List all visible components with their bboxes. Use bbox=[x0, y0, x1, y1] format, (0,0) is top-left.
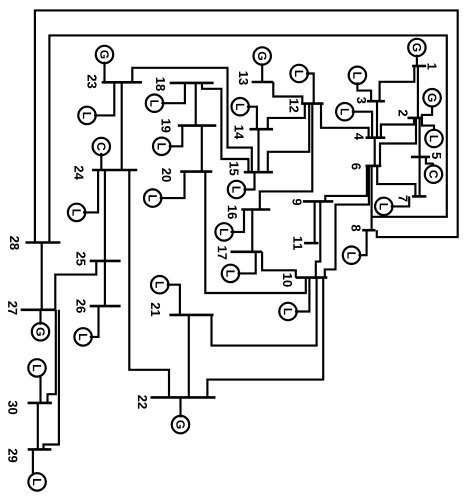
load L15 bbox=[228, 172, 255, 198]
generator G22 bbox=[172, 397, 189, 433]
bus 6 bbox=[366, 165, 382, 168]
bus 18 bbox=[170, 82, 214, 85]
line 10-17 bbox=[262, 252, 296, 278]
bus 29 bbox=[28, 448, 52, 451]
line 18-19 bbox=[195, 83, 197, 126]
line 1-3 bbox=[380, 66, 415, 101]
bus 15 bbox=[244, 171, 273, 174]
generator G23 bbox=[96, 46, 113, 83]
bus 5 bbox=[411, 156, 430, 159]
label bus 10 bbox=[283, 274, 292, 287]
line 6-7 bbox=[377, 166, 415, 197]
load L16 bbox=[215, 210, 244, 241]
load L14 bbox=[232, 98, 257, 129]
line 23-15 bbox=[132, 68, 252, 172]
line 24-25 bbox=[104, 170, 106, 261]
label bus 19 bbox=[161, 119, 170, 132]
condenser C24 bbox=[93, 138, 110, 170]
bus 9 bbox=[303, 200, 333, 203]
line 12-16 bbox=[260, 104, 313, 210]
label bus 5 bbox=[432, 152, 441, 158]
line 21-22 bbox=[188, 315, 190, 398]
line 1-2 bbox=[417, 66, 419, 118]
bus 22 bbox=[151, 396, 216, 399]
label bus 15 bbox=[229, 162, 238, 175]
load L12 bbox=[290, 65, 313, 104]
label bus 30 bbox=[8, 401, 17, 415]
line 6-10 bbox=[325, 166, 369, 278]
load L3 bbox=[349, 67, 371, 102]
line 23-24 bbox=[121, 82, 123, 170]
line 14-15 bbox=[257, 129, 259, 172]
load L23 bbox=[78, 82, 114, 124]
label bus 27 bbox=[8, 301, 17, 314]
label bus 12 bbox=[290, 99, 299, 112]
line 9-11 bbox=[314, 201, 316, 243]
generator G1 bbox=[408, 39, 425, 66]
label bus 9 bbox=[292, 199, 301, 205]
bus 14 bbox=[250, 128, 274, 131]
bus 17 bbox=[231, 251, 263, 254]
generator G2 bbox=[422, 89, 441, 118]
load L2 bbox=[422, 118, 443, 147]
load L8 bbox=[343, 230, 367, 264]
label bus 23 bbox=[87, 75, 96, 89]
line 12-13 bbox=[273, 82, 302, 104]
label bus 1 bbox=[428, 64, 437, 70]
line 25-27 bbox=[55, 261, 96, 310]
line 10-20 bbox=[205, 172, 305, 293]
bus 13 bbox=[252, 81, 274, 84]
line 22-24 bbox=[129, 170, 169, 397]
load L19 bbox=[153, 126, 182, 155]
line 27-30 bbox=[48, 310, 56, 403]
label bus 29 bbox=[8, 449, 17, 463]
bus 2 bbox=[408, 117, 424, 120]
bus 4 bbox=[366, 136, 386, 139]
label bus 8 bbox=[351, 225, 360, 231]
bus 21 bbox=[169, 314, 213, 317]
bus 23 bbox=[102, 81, 142, 84]
line 25-26 bbox=[104, 261, 106, 306]
line 10-21 bbox=[212, 278, 317, 346]
bus 7 bbox=[412, 195, 426, 198]
line 9-10 bbox=[316, 201, 321, 277]
label bus 14 bbox=[235, 126, 244, 140]
line 12-4 bbox=[321, 104, 369, 138]
line 2-6 bbox=[380, 118, 416, 166]
bus 25 bbox=[90, 260, 121, 263]
line 4-6 bbox=[374, 138, 376, 166]
label bus 3 bbox=[357, 97, 366, 103]
load L21 bbox=[151, 276, 180, 315]
label bus 16 bbox=[228, 206, 237, 219]
label bus 17 bbox=[218, 246, 227, 259]
generator G13 bbox=[254, 47, 271, 82]
label bus 25 bbox=[76, 252, 85, 266]
bus 3 bbox=[367, 100, 385, 103]
wire 6-28 (bus 6 to bus 28, routed around top/right) bbox=[49, 35, 446, 242]
label bus 22 bbox=[138, 395, 147, 408]
bus 12 bbox=[301, 102, 323, 105]
bus 19 bbox=[178, 124, 217, 127]
label bus 21 bbox=[151, 303, 160, 317]
bus 28 bbox=[26, 241, 61, 244]
line 2-5 bbox=[419, 118, 421, 156]
line 5-7 bbox=[419, 157, 421, 197]
bus 10 bbox=[296, 276, 328, 279]
wire 8-28 (bus 8 to bus 28, routed around top/right) bbox=[35, 10, 458, 242]
line 27-29 bbox=[44, 310, 59, 450]
bus 24 bbox=[92, 169, 137, 172]
bus 30 bbox=[28, 402, 52, 405]
label bus 2 bbox=[399, 110, 408, 116]
load L20 bbox=[144, 172, 185, 207]
line 16-17 bbox=[251, 210, 253, 252]
bus 11 bbox=[304, 242, 318, 245]
line 28-27 bbox=[41, 243, 43, 310]
label bus 4 bbox=[355, 133, 364, 140]
generator G27 bbox=[32, 310, 49, 341]
load L10 bbox=[279, 278, 309, 321]
load L24 bbox=[68, 170, 98, 221]
load L30 bbox=[28, 359, 45, 403]
load L18 bbox=[146, 83, 185, 112]
line 12-14 bbox=[268, 104, 305, 130]
label bus 6 bbox=[352, 163, 361, 169]
load L29 bbox=[28, 449, 45, 490]
line 10-22 bbox=[207, 278, 323, 398]
line 2-4 bbox=[381, 118, 414, 137]
line 6-8 bbox=[371, 166, 373, 230]
line 15-18 bbox=[202, 83, 248, 172]
load L26 bbox=[74, 306, 98, 345]
label bus 13 bbox=[239, 72, 248, 85]
line 19-20 bbox=[201, 126, 203, 172]
load L17 bbox=[222, 252, 256, 282]
bus 20 bbox=[180, 170, 212, 173]
label bus 26 bbox=[76, 299, 85, 313]
line 29-30 bbox=[37, 403, 39, 450]
bus 27 bbox=[21, 308, 55, 311]
line 6-9 bbox=[325, 166, 367, 202]
bus 8 bbox=[362, 229, 375, 232]
load L4 bbox=[336, 103, 372, 138]
label bus 28 bbox=[10, 236, 19, 250]
bus 26 bbox=[90, 305, 121, 308]
label bus 11 bbox=[293, 237, 302, 250]
label bus 24 bbox=[74, 166, 83, 180]
bus 1 bbox=[412, 65, 426, 68]
condenser C5 bbox=[425, 157, 442, 183]
load L7 bbox=[375, 196, 409, 215]
label bus 18 bbox=[156, 78, 165, 91]
bus 16 bbox=[241, 208, 270, 211]
line 12-15 bbox=[268, 104, 309, 173]
line 3-4 bbox=[376, 101, 378, 138]
label bus 20 bbox=[162, 168, 171, 181]
label bus 7 bbox=[399, 195, 408, 201]
